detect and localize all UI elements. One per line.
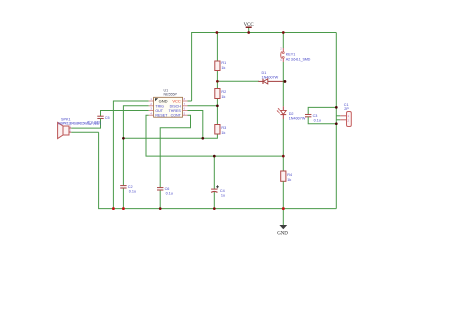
svg-text:0.1u: 0.1u — [129, 190, 136, 194]
svg-text:D2: D2 — [289, 112, 294, 116]
speaker SPK1 — [58, 118, 102, 139]
wire R1 column (rail to D1 junction) — [216, 33, 218, 82]
VCC power flag — [244, 23, 254, 33]
capacitor C4 1u polarized — [211, 185, 225, 197]
resistor R4 — [281, 171, 292, 182]
svg-text:2P: 2P — [344, 107, 349, 111]
wire R4 to bottom rail — [282, 181, 284, 208]
wire KEY to D1 junction to D2 — [282, 62, 284, 106]
svg-text:GSPK1304S 8R0.5W贴片喇叭: GSPK1304S 8R0.5W贴片喇叭 — [58, 120, 101, 125]
wire C4 column — [213, 156, 215, 209]
wire TRIG THRES link — [123, 137, 216, 139]
wire DISCH to R2 R3 junction — [188, 105, 218, 107]
svg-text:RESET: RESET — [155, 114, 168, 118]
svg-text:KEY1: KEY1 — [286, 53, 296, 57]
junction RESET R4 node — [282, 155, 285, 158]
wire R2 stubs — [216, 81, 218, 106]
junction GND pin rail node — [112, 207, 115, 210]
wire D1 row — [217, 80, 259, 82]
svg-text:OUT: OUT — [155, 109, 163, 113]
svg-text:R2: R2 — [221, 90, 226, 94]
svg-text:THRES: THRES — [169, 109, 182, 113]
svg-text:C2: C2 — [128, 185, 133, 189]
svg-text:VCC: VCC — [244, 23, 254, 28]
svg-text:C6: C6 — [165, 187, 170, 191]
svg-text:R4: R4 — [287, 173, 292, 177]
wire top rail VCC — [192, 33, 337, 102]
junction D1 KEY1 D2 node — [283, 80, 286, 83]
connector C1 header — [340, 103, 351, 127]
svg-text:C5: C5 — [105, 116, 110, 120]
svg-text:C3: C3 — [313, 114, 318, 118]
wire connector stubs — [336, 116, 340, 120]
svg-text:NE555P: NE555P — [164, 92, 178, 96]
svg-text:1k: 1k — [287, 178, 291, 182]
wire right rail — [335, 33, 337, 209]
junction C3 top rail node — [335, 106, 338, 109]
resistor R2 — [215, 89, 226, 100]
wire R3 stubs — [216, 106, 219, 138]
LED D2 — [277, 106, 306, 120]
wire CONT route to C6 — [160, 115, 190, 208]
junction THRES link node — [201, 137, 204, 140]
svg-text:0.1u: 0.1u — [314, 119, 321, 123]
wire VCC pin to rail feed — [188, 100, 192, 102]
capacitor C2 0.1u — [120, 185, 136, 194]
svg-text:1k: 1k — [221, 131, 225, 135]
wire speaker minus to gnd rail — [71, 131, 98, 133]
junction C6 rail node — [159, 207, 162, 210]
wire C3 loop top — [308, 107, 336, 114]
svg-text:A2 3.6-6.1_SMD: A2 3.6-6.1_SMD — [286, 58, 311, 62]
capacitor C5 — [97, 116, 109, 120]
svg-text:C4: C4 — [220, 189, 225, 193]
wire THRES drop — [188, 111, 203, 139]
junction VCC stub — [247, 31, 250, 34]
wire OUT to C5 — [101, 111, 149, 117]
junction R4 GND rail node — [282, 207, 285, 210]
svg-text:1N4007W: 1N4007W — [289, 117, 306, 121]
capacitor C6 0.1u — [157, 187, 173, 196]
wire TRIG column — [123, 106, 148, 209]
junction DISCH R2 R3 node — [216, 104, 219, 107]
svg-text:1u: 1u — [221, 194, 225, 198]
resistor R1 — [215, 61, 226, 71]
svg-text:TRIG: TRIG — [155, 104, 164, 108]
ic U1 NE555P — [149, 88, 188, 117]
svg-text:GND: GND — [277, 231, 288, 236]
svg-text:R1: R1 — [221, 61, 226, 65]
svg-text:CONT: CONT — [171, 114, 182, 118]
capacitor C3 0.1u — [305, 114, 321, 123]
svg-text:0.1u: 0.1u — [166, 192, 173, 196]
diode D1 1N4007W — [258, 71, 285, 84]
junction R1 R2 D1 node — [216, 80, 219, 83]
wire bottom rail GND — [99, 132, 337, 208]
svg-text:1N4007W: 1N4007W — [262, 76, 279, 80]
resistor R3 — [215, 125, 226, 136]
svg-text:1k: 1k — [221, 66, 225, 70]
svg-text:GND: GND — [159, 99, 168, 104]
svg-text:D1: D1 — [262, 71, 267, 75]
pushbutton KEY1 — [280, 47, 310, 63]
wire D2 to R4 — [282, 119, 284, 171]
svg-text:R3: R3 — [221, 126, 226, 130]
svg-text:DISCH: DISCH — [170, 104, 182, 108]
wire C3 loop bottom — [308, 117, 336, 124]
wire GND pin column — [113, 101, 148, 209]
junction TRIG link node — [122, 137, 125, 140]
ground GND flag — [277, 209, 288, 237]
junction C3 bottom rail node — [335, 122, 338, 125]
junction C4 rail node — [213, 207, 216, 210]
wire KEY column top — [282, 33, 284, 49]
junction KEY1 top rail — [282, 31, 285, 34]
svg-text:1k: 1k — [221, 95, 225, 99]
wire C5 to speaker plus — [71, 119, 100, 129]
junction R1 top rail — [216, 31, 219, 34]
junction C2 rail node — [122, 207, 125, 210]
svg-text:VCC: VCC — [172, 99, 181, 104]
wire RESET route to R4 junction — [146, 115, 283, 156]
junction C4 top node — [213, 155, 216, 158]
